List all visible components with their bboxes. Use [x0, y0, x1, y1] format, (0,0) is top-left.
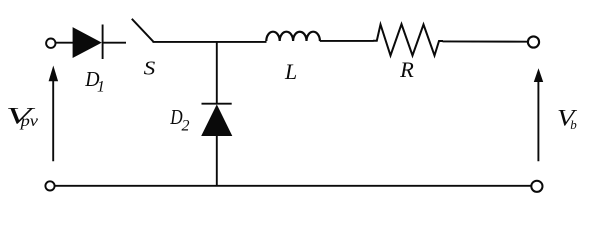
svg-text:pv: pv [19, 113, 39, 130]
wire D1 to switch [103, 42, 126, 44]
node junction at top of D2 branch [216, 41, 218, 105]
wire inductor to resistor [320, 40, 374, 42]
terminal node top-right [528, 36, 539, 47]
svg-text:b: b [570, 117, 577, 132]
label Vpv [6, 103, 39, 130]
svg-text:R: R [399, 57, 414, 82]
bottom rail wire [55, 185, 531, 187]
terminal node bottom-left [45, 181, 54, 190]
resistor R [373, 24, 443, 55]
wire top-left terminal to D1 [55, 42, 73, 44]
svg-text:2: 2 [182, 117, 190, 134]
svg-text:1: 1 [97, 79, 105, 96]
terminal node bottom-right [531, 181, 542, 192]
switch S blade [132, 19, 154, 42]
Vb arrow [534, 68, 543, 161]
svg-text:L: L [284, 59, 297, 84]
label Vb [557, 106, 578, 133]
inductor L [266, 32, 320, 41]
label D2 [169, 105, 189, 134]
wire D2 to bottom rail [216, 135, 218, 187]
diode D2 [202, 104, 232, 136]
label D1 [84, 67, 105, 96]
wire resistor to top-right terminal [443, 40, 528, 42]
svg-text:S: S [144, 58, 156, 80]
terminal node top-left [46, 39, 55, 48]
Vpv arrow [49, 66, 59, 162]
wire switch to inductor (through node) [153, 41, 267, 43]
diode D1 [73, 25, 103, 60]
